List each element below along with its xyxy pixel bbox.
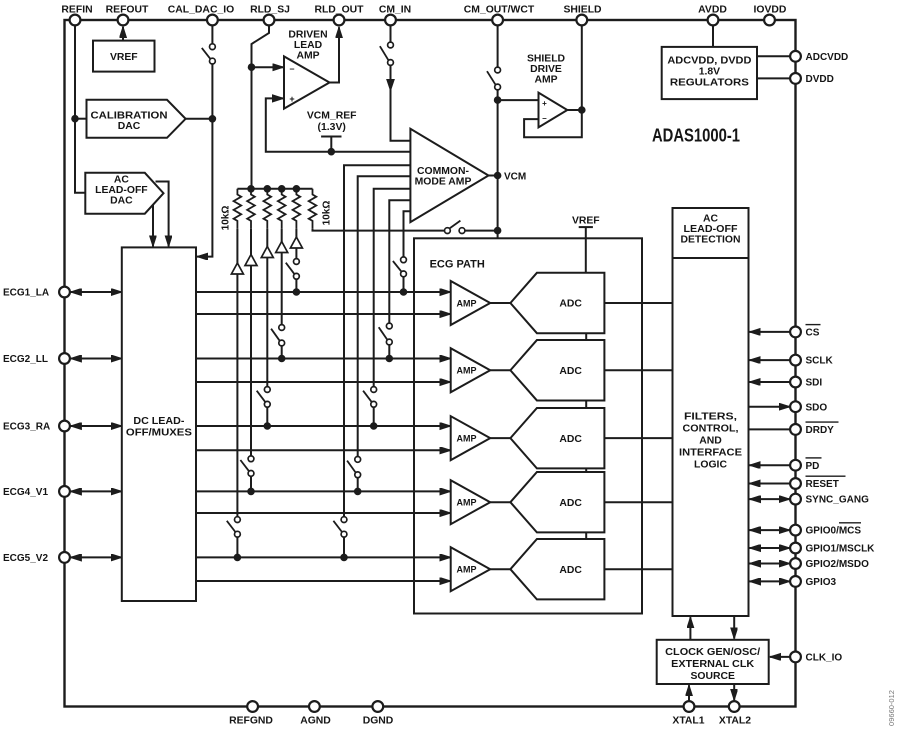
op-amp driven lead amp (284, 29, 330, 108)
AC lead-off current source arrow column 2 (245, 255, 257, 266)
wire ECG3_RA to DC lead-off mux (bidirectional) (70, 425, 121, 427)
svg-text:AVDD: AVDD (698, 5, 727, 16)
switch on common-mode sense line ch3 (363, 387, 377, 408)
resistor R3 10k&#937; (263, 189, 271, 229)
pin CAL_DAC_IO (168, 5, 234, 26)
svg-text:SYNC_GANG: SYNC_GANG (806, 495, 870, 506)
svg-text:SHIELD: SHIELD (563, 5, 602, 16)
node common-mode sense ch5 (341, 554, 348, 561)
pin CS (790, 327, 820, 339)
svg-text:+: + (542, 99, 547, 108)
svg-text:EXTERNAL CLK: EXTERNAL CLK (671, 659, 755, 670)
svg-text:ECG2_LL: ECG2_LL (3, 354, 48, 365)
wire ECG2_LL to DC lead-off mux (bidirectional) (70, 358, 121, 360)
pin ECG1_LA (3, 287, 70, 299)
switch on CAL_DAC_IO (202, 44, 216, 64)
svg-text:REFIN: REFIN (61, 5, 92, 16)
wire RLD_SJ to RLD amp inverting input and resistor bus (252, 25, 284, 188)
resistor R1 10k&#937; (234, 189, 242, 229)
svg-text:ECG5_V2: ECG5_V2 (3, 553, 48, 564)
wire common-mode sense line ch3 (374, 189, 411, 426)
pin DGND (363, 701, 394, 726)
svg-text:PD: PD (806, 461, 820, 472)
wire resistor R4 column to ECG line (281, 229, 283, 359)
wire to shield drive amp input (498, 99, 539, 101)
wire AC lead-off DAC outputs to DC mux (153, 182, 169, 247)
svg-text:CLK_IO: CLK_IO (806, 653, 843, 664)
wire VREF chain ADC4-ADC5 (585, 532, 587, 539)
wire GPIO2/MSDO to filters/control logic (750, 563, 790, 565)
svg-text:–: – (542, 114, 547, 123)
svg-text:CS: CS (806, 328, 820, 339)
svg-text:GPIO2/MSDO: GPIO2/MSDO (806, 559, 870, 570)
svg-text:AGND: AGND (300, 716, 331, 727)
switch on CM_OUT/WCT (487, 67, 501, 90)
switch on column 1 (227, 517, 241, 537)
node shield amp output (579, 107, 586, 114)
wire ECG4 differential pair to amp (196, 491, 451, 513)
svg-text:AMP: AMP (457, 565, 477, 575)
switch on common-mode sense line ch4 (347, 457, 361, 478)
svg-text:CM_OUT/WCT: CM_OUT/WCT (464, 5, 535, 16)
pin GPIO2/MSDO (790, 558, 869, 570)
wire AMP1 to ADC1 (490, 302, 510, 304)
wire PD to filters/control logic (750, 464, 790, 466)
wire ECG4_V1 to DC lead-off mux (bidirectional) (70, 490, 121, 492)
wire CAL_DAC_IO (197, 25, 212, 256)
svg-text:ADC: ADC (559, 565, 582, 576)
svg-text:CM_IN: CM_IN (379, 5, 411, 16)
wire GPIO3 to filters/control logic (750, 580, 790, 582)
wire CLK_IO to clock block (770, 656, 790, 658)
wire AMP3 to ADC3 (490, 437, 510, 439)
wire ECG1 differential pair to amp (196, 292, 451, 314)
svg-text:(1.3V): (1.3V) (318, 122, 346, 133)
pin IOVDD (754, 5, 787, 26)
pin CLK_IO (790, 652, 842, 664)
svg-text:IOVDD: IOVDD (754, 5, 787, 16)
pin GPIO3 (790, 576, 836, 588)
node VCM (494, 171, 526, 182)
pin RESET (790, 478, 839, 490)
node column 4 (278, 355, 285, 362)
wire averaged common-mode to VCM line (313, 229, 498, 231)
svg-text:DAC: DAC (110, 196, 133, 207)
wire common-mode sense line ch4 (358, 176, 411, 491)
pin REFIN (61, 5, 92, 26)
svg-text:AC: AC (114, 175, 130, 186)
wire RLD amp output to RLD_OUT (330, 27, 340, 82)
resistor R4 10k&#937; (278, 189, 286, 229)
wire RESET to filters/control logic (750, 483, 790, 485)
wire GPIO1/MSCLK to filters/control logic (750, 547, 790, 549)
switch on common-mode sense line ch2 (379, 323, 392, 345)
ADC3 (510, 408, 604, 468)
svg-text:XTAL2: XTAL2 (719, 716, 751, 727)
overline MCS (839, 522, 861, 524)
pin AGND (300, 701, 331, 726)
svg-text:AMP: AMP (534, 74, 557, 85)
overline PD (806, 457, 822, 459)
wire ADC3 output to filters (604, 437, 672, 439)
calibration DAC (87, 100, 186, 138)
svg-text:SOURCE: SOURCE (690, 671, 735, 682)
wire calibration DAC output to CAL_DAC_IO line (186, 118, 213, 120)
switch on column 2 (240, 456, 254, 476)
switch on common-mode sense line ch5 (333, 517, 347, 537)
svg-text:VREF: VREF (572, 215, 600, 226)
wire ECG2 differential pair to amp (196, 359, 451, 383)
AC lead-off current source arrow column 5 (290, 237, 302, 248)
wire SDO to filters/control logic (750, 406, 790, 408)
svg-text:LEAD-OFF: LEAD-OFF (684, 224, 738, 235)
svg-text:DAC: DAC (118, 121, 141, 132)
wire CM_OUT/WCT (497, 25, 499, 238)
clock gen/osc/external clk source block (657, 640, 769, 684)
wire GPIO0/MCS to filters/control logic (750, 529, 790, 531)
chip boundary ADAS1000-1 (65, 20, 796, 707)
switch on column 3 (257, 387, 270, 408)
wire ECG5_V2 to DC lead-off mux (bidirectional) (70, 556, 121, 558)
node VCM_REF on rail (328, 148, 335, 155)
switch on column 4 (271, 325, 285, 346)
svg-text:AMP: AMP (457, 498, 477, 508)
wire regulators to ADCVDD pin (757, 55, 790, 57)
wire ADC2 output to filters (604, 369, 672, 371)
wire shield amp output to SHIELD pin (567, 25, 582, 110)
pin REFOUT (106, 5, 149, 26)
ECG path block (414, 238, 642, 613)
svg-text:CONTROL,: CONTROL, (683, 424, 739, 435)
svg-text:DRDY: DRDY (806, 425, 835, 436)
wire ECG1_LA to DC lead-off mux (bidirectional) (70, 291, 121, 293)
VCM_REF (1.3V) reference (307, 111, 357, 152)
pin SDO (790, 401, 827, 413)
svg-text:1.8V: 1.8V (699, 66, 720, 77)
label ADAS1000-1 (652, 126, 740, 146)
svg-text:ECG3_RA: ECG3_RA (3, 422, 50, 433)
svg-text:DC LEAD-: DC LEAD- (133, 416, 185, 427)
op-amp shield drive amp (527, 53, 567, 127)
VREF block (93, 41, 155, 72)
DC lead-off muxes block (122, 247, 196, 601)
switch on column 5 (286, 259, 300, 280)
svg-text:VREF: VREF (110, 52, 138, 63)
svg-text:10kΩ: 10kΩ (322, 201, 333, 226)
wire ECG5 differential pair to amp (196, 557, 451, 581)
wire common-mode sense line ch2 (389, 200, 410, 358)
pin GPIO1/MSCLK (790, 543, 875, 555)
svg-text:DGND: DGND (363, 716, 394, 727)
svg-text:REFOUT: REFOUT (106, 5, 149, 16)
node calibration DAC / CAL_DAC_IO (209, 116, 216, 123)
svg-text:AMP: AMP (457, 366, 477, 376)
wire CS to filters/control logic (750, 331, 790, 333)
svg-text:ADC: ADC (559, 434, 582, 445)
svg-text:COMMON-: COMMON- (417, 166, 469, 177)
svg-text:ECG PATH: ECG PATH (430, 258, 485, 270)
filters, control and interface logic block (673, 208, 749, 616)
wire AMP5 to ADC5 (490, 568, 510, 570)
svg-text:ADCVDD: ADCVDD (806, 52, 849, 63)
pin ECG2_LL (3, 353, 70, 365)
pin ECG3_RA (3, 421, 70, 433)
svg-text:LEAD: LEAD (294, 40, 323, 51)
pin RLD_OUT (314, 5, 364, 26)
label 10k&#937; right (322, 201, 333, 226)
svg-text:ADC: ADC (559, 498, 582, 509)
wire SDI to filters/control logic (750, 381, 790, 383)
wire resistor R2 column to ECG line (250, 229, 252, 492)
svg-text:INTERFACE: INTERFACE (679, 448, 742, 459)
wire XTAL1 to clock block (688, 685, 690, 701)
AC lead-off current source arrow column 4 (276, 242, 288, 253)
amplifier AMP3 (451, 416, 491, 460)
wire filters to clock (down) (733, 616, 735, 639)
svg-text:RLD_OUT: RLD_OUT (314, 5, 364, 16)
svg-text:GPIO3: GPIO3 (806, 577, 837, 588)
node shield amp pick-off (494, 97, 501, 104)
pin SYNC_GANG (790, 494, 869, 506)
svg-text:DETECTION: DETECTION (681, 235, 741, 246)
wire shield amp feedback (524, 110, 582, 137)
node column 1 (234, 554, 241, 561)
pin DVDD (790, 73, 834, 85)
node common-mode sense ch1 (400, 289, 407, 296)
AC lead-off DAC (85, 173, 163, 214)
wire ADC5 output to filters (604, 568, 672, 570)
wire VREF chain ADC1-ADC2 (585, 333, 587, 340)
AC lead-off current source arrow column 3 (261, 247, 273, 258)
pin CM_IN (379, 5, 411, 26)
svg-text:AC: AC (703, 214, 719, 225)
svg-text:MODE AMP: MODE AMP (415, 177, 472, 188)
ADCVDD DVDD 1.8V regulators block (662, 47, 757, 99)
pin SDI (790, 377, 822, 389)
svg-text:OFF/MUXES: OFF/MUXES (126, 428, 192, 439)
svg-text:CAL_DAC_IO: CAL_DAC_IO (168, 5, 234, 16)
ADC4 (510, 472, 604, 532)
svg-text:VCM: VCM (504, 171, 526, 182)
svg-text:LEAD-OFF: LEAD-OFF (95, 185, 148, 196)
label 10k&#937; left (221, 206, 232, 231)
svg-text:CLOCK GEN/OSC/: CLOCK GEN/OSC/ (665, 647, 760, 658)
node common-mode sense ch3 (370, 423, 377, 430)
node common-mode sense ch2 (386, 355, 393, 362)
svg-text:ADCVDD, DVDD: ADCVDD, DVDD (667, 55, 752, 66)
ADC2 (510, 340, 604, 400)
pin GPIO0/MCS (790, 525, 861, 537)
wire ECG3 differential pair to amp (196, 426, 451, 450)
svg-text:SHIELD: SHIELD (527, 53, 566, 64)
node VCM line / ECG path (494, 227, 501, 234)
svg-text:DVDD: DVDD (806, 74, 834, 85)
pin SHIELD (563, 5, 602, 26)
svg-text:AMP: AMP (296, 51, 319, 62)
svg-text:RLD_SJ: RLD_SJ (250, 5, 290, 16)
wire ADC4 output to filters (604, 501, 672, 503)
wire SYNC_GANG to filters/control logic (750, 498, 790, 500)
wire AMP2 to ADC2 (490, 369, 510, 371)
node column 5 (293, 289, 300, 296)
wire common-mode sense line ch5 (344, 165, 410, 557)
pin CM_OUT/WCT (464, 5, 535, 26)
wire common-mode sense line ch1 (404, 211, 411, 292)
wire clock to filters (up) (689, 617, 691, 640)
wire VREF to REFOUT (122, 27, 124, 41)
pin AVDD (698, 5, 727, 26)
svg-text:REGULATORS: REGULATORS (670, 78, 749, 89)
wire ADC1 output to filters (604, 302, 672, 304)
resistor R5 10k&#937; (293, 189, 301, 229)
svg-text:ECG4_V1: ECG4_V1 (3, 487, 48, 498)
svg-text:ADC: ADC (559, 366, 582, 377)
switch on common-mode sense line ch1 (393, 257, 407, 277)
pin XTAL1 (672, 701, 704, 726)
wire VREF chain ADC2-ADC3 (585, 400, 587, 408)
svg-text:09660-012: 09660-012 (887, 690, 896, 726)
VREF tee to ADC chain (572, 215, 600, 273)
wire clock block to XTAL2 (733, 684, 735, 700)
pin PD (790, 460, 819, 472)
svg-text:AND: AND (699, 436, 722, 447)
pin ECG5_V2 (3, 552, 70, 564)
AC lead-off current source arrow column 1 (231, 263, 243, 274)
resistor R6 10k&#937; (309, 189, 317, 229)
svg-text:–: – (289, 64, 294, 74)
overline DRDY (806, 421, 839, 423)
pin RLD_SJ (250, 5, 290, 26)
svg-text:SDO: SDO (806, 402, 828, 413)
wire resistor R1 column to ECG line (236, 229, 238, 558)
amplifier AMP2 (451, 348, 491, 392)
wire RLD amp non-inverting input / VCM_REF rail (266, 95, 411, 152)
pin DRDY (790, 424, 834, 436)
amplifier AMP4 (451, 480, 491, 524)
ADC1 (510, 273, 604, 333)
pin REFGND (229, 701, 273, 726)
svg-text:SCLK: SCLK (806, 356, 834, 367)
svg-text:ADAS1000-1: ADAS1000-1 (652, 126, 740, 146)
wire resistor bus (237, 188, 312, 190)
wire regulators to DVDD pin (757, 77, 790, 79)
pin ECG4_V1 (3, 486, 70, 498)
resistor R2 10k&#937; (247, 189, 255, 229)
wire DRDY to filters/control logic (750, 428, 790, 430)
svg-text:GPIO1/MSCLK: GPIO1/MSCLK (806, 544, 876, 555)
wire AVDD to regulators (712, 25, 714, 47)
svg-text:AMP: AMP (457, 298, 477, 308)
wire resistor R3 column to ECG line (266, 229, 268, 426)
wire resistor R5 column to ECG line (295, 229, 297, 292)
svg-text:10kΩ: 10kΩ (221, 206, 232, 231)
wire common-mode amp output to VCM node (489, 175, 498, 177)
svg-text:GPIO0/MCS: GPIO0/MCS (806, 526, 862, 537)
wire SCLK to filters/control logic (750, 359, 790, 361)
svg-text:RESET: RESET (806, 479, 839, 490)
pin XTAL2 (719, 701, 751, 726)
svg-text:+: + (289, 94, 294, 104)
svg-text:VCM_REF: VCM_REF (307, 111, 357, 122)
op-amp common-mode amp (410, 129, 488, 222)
node column 3 (264, 423, 271, 430)
node RLD_SJ (248, 64, 255, 71)
svg-text:ECG1_LA: ECG1_LA (3, 288, 49, 299)
node REFIN / calibration DAC (72, 115, 79, 122)
wire AMP4 to ADC4 (490, 501, 510, 503)
svg-text:DRIVEN: DRIVEN (288, 29, 327, 40)
switch on CM_IN (380, 42, 394, 65)
amplifier AMP1 (451, 281, 491, 325)
svg-text:AMP: AMP (457, 434, 477, 444)
overline RESET (806, 475, 846, 477)
node common-mode sense ch4 (354, 488, 361, 495)
wire VREF chain ADC3-ADC4 (585, 468, 587, 472)
svg-text:ADC: ADC (559, 299, 582, 310)
amplifier AMP5 (451, 547, 491, 591)
overline CS (806, 324, 821, 326)
svg-text:FILTERS,: FILTERS, (684, 412, 737, 423)
svg-text:REFGND: REFGND (229, 716, 273, 727)
switch common-mode to VCM (445, 221, 465, 234)
wire CM_IN to common-mode amp (387, 25, 411, 140)
svg-text:CALIBRATION: CALIBRATION (91, 110, 168, 121)
ADC5 (510, 539, 604, 599)
node column 2 (248, 488, 255, 495)
pin ADCVDD (790, 51, 848, 63)
svg-text:XTAL1: XTAL1 (672, 716, 704, 727)
figure number 09660-012 (887, 690, 896, 726)
pin SCLK (790, 355, 833, 367)
bus junction nodes (248, 186, 300, 193)
svg-text:LOGIC: LOGIC (694, 460, 727, 471)
wire REFIN bus (75, 25, 87, 192)
svg-text:SDI: SDI (806, 378, 823, 389)
svg-text:DRIVE: DRIVE (530, 64, 562, 75)
